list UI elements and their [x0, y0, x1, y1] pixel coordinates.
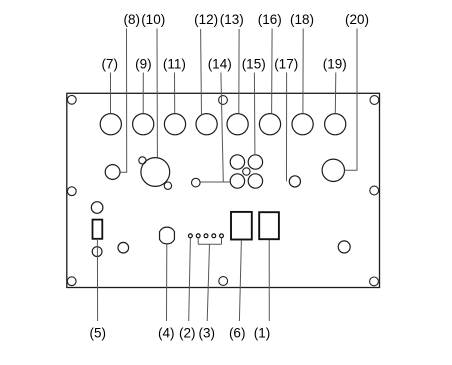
mounting hole bottom-right	[370, 277, 379, 286]
XLR cutout (10) screw hole upper-left	[139, 157, 146, 164]
square cutout (6)	[231, 212, 252, 240]
svg-text:(18): (18)	[290, 12, 314, 27]
cluster hole bottom-right	[248, 174, 262, 188]
leader (6)	[239, 240, 241, 321]
LED hole (2)	[189, 234, 193, 238]
connector hole (16)	[259, 114, 280, 135]
small hole lower-right	[338, 241, 350, 253]
svg-text:(17): (17)	[274, 57, 298, 72]
small hole right of fuse	[118, 242, 129, 253]
leader (10)	[156, 29, 158, 158]
LED hole 2	[196, 234, 200, 238]
hole (5) small circle	[92, 247, 102, 257]
svg-text:(3): (3)	[199, 325, 216, 340]
leader (14)	[221, 73, 223, 183]
mounting hole bottom-left	[67, 277, 76, 286]
leader (17)	[286, 73, 288, 182]
hole (14) small circle	[192, 178, 201, 187]
connector hole (11)	[164, 114, 185, 135]
XLR cutout (10) screw hole lower-right	[164, 182, 171, 189]
hole (20) large circle	[322, 159, 344, 181]
cluster hole top-right (15)	[248, 155, 262, 169]
svg-text:(10): (10)	[141, 12, 165, 27]
leader (11)	[174, 73, 176, 114]
svg-text:(14): (14)	[208, 57, 232, 72]
mounting hole right-middle	[370, 186, 379, 195]
svg-text:(1): (1)	[254, 325, 271, 340]
leader (13)	[238, 29, 240, 114]
svg-text:(4): (4)	[158, 325, 175, 340]
svg-text:(13): (13)	[220, 12, 244, 27]
leader (1)	[268, 240, 270, 321]
square cutout (1)	[259, 212, 279, 239]
mounting hole top-middle	[219, 96, 228, 105]
svg-text:(15): (15)	[242, 57, 266, 72]
leader (3) bracket	[198, 238, 221, 244]
svg-text:(19): (19)	[323, 57, 347, 72]
cluster hole top-left	[230, 155, 244, 169]
leader (18)	[302, 29, 304, 114]
hole (8) small circle	[105, 165, 120, 180]
svg-text:(2): (2)	[179, 325, 196, 340]
cluster center hole	[243, 168, 250, 175]
mounting hole top-right	[370, 96, 379, 105]
connector hole (19)	[325, 114, 346, 135]
fuse holder rectangle	[93, 220, 103, 239]
connector hole (13)	[227, 114, 248, 135]
mounting hole top-left	[67, 95, 76, 104]
mounting hole bottom-middle	[219, 277, 228, 286]
connector hole (12)	[196, 114, 217, 135]
leader (12)	[200, 29, 203, 116]
svg-text:(5): (5)	[90, 325, 107, 340]
leader (3)	[207, 244, 209, 321]
leader (4)	[166, 244, 168, 321]
connector hole (9)	[133, 114, 154, 135]
cluster hole bottom-left	[230, 174, 244, 188]
svg-text:(6): (6)	[229, 325, 246, 340]
leader (14) horizontal	[200, 181, 230, 183]
leader (5)	[96, 239, 98, 321]
svg-text:(9): (9)	[135, 57, 152, 72]
keyed hole (4)	[160, 227, 175, 244]
svg-text:(12): (12)	[194, 12, 218, 27]
connector hole (7)	[100, 114, 121, 135]
leader (2)	[189, 238, 191, 321]
small hole above fuse	[91, 202, 103, 214]
mounting hole left-middle	[67, 187, 76, 196]
leader (15)	[253, 73, 256, 155]
svg-text:(16): (16)	[258, 12, 282, 27]
leader (8)	[120, 29, 126, 173]
svg-text:(11): (11)	[163, 57, 186, 72]
LED hole 3	[204, 234, 208, 238]
svg-text:(8): (8)	[124, 12, 141, 27]
leader (7)	[110, 73, 112, 114]
LED hole 5	[220, 234, 224, 238]
leader (16)	[271, 29, 274, 114]
leader (20)	[345, 29, 357, 171]
svg-text:(20): (20)	[345, 12, 369, 27]
hole (17) small circle	[289, 176, 300, 187]
leader (9)	[142, 73, 144, 114]
panel outline	[67, 93, 380, 287]
leader (19)	[334, 73, 337, 114]
connector hole (18)	[292, 114, 313, 135]
XLR cutout (10) main circle	[141, 158, 170, 187]
LED hole 4	[212, 234, 216, 238]
svg-text:(7): (7)	[101, 57, 118, 72]
